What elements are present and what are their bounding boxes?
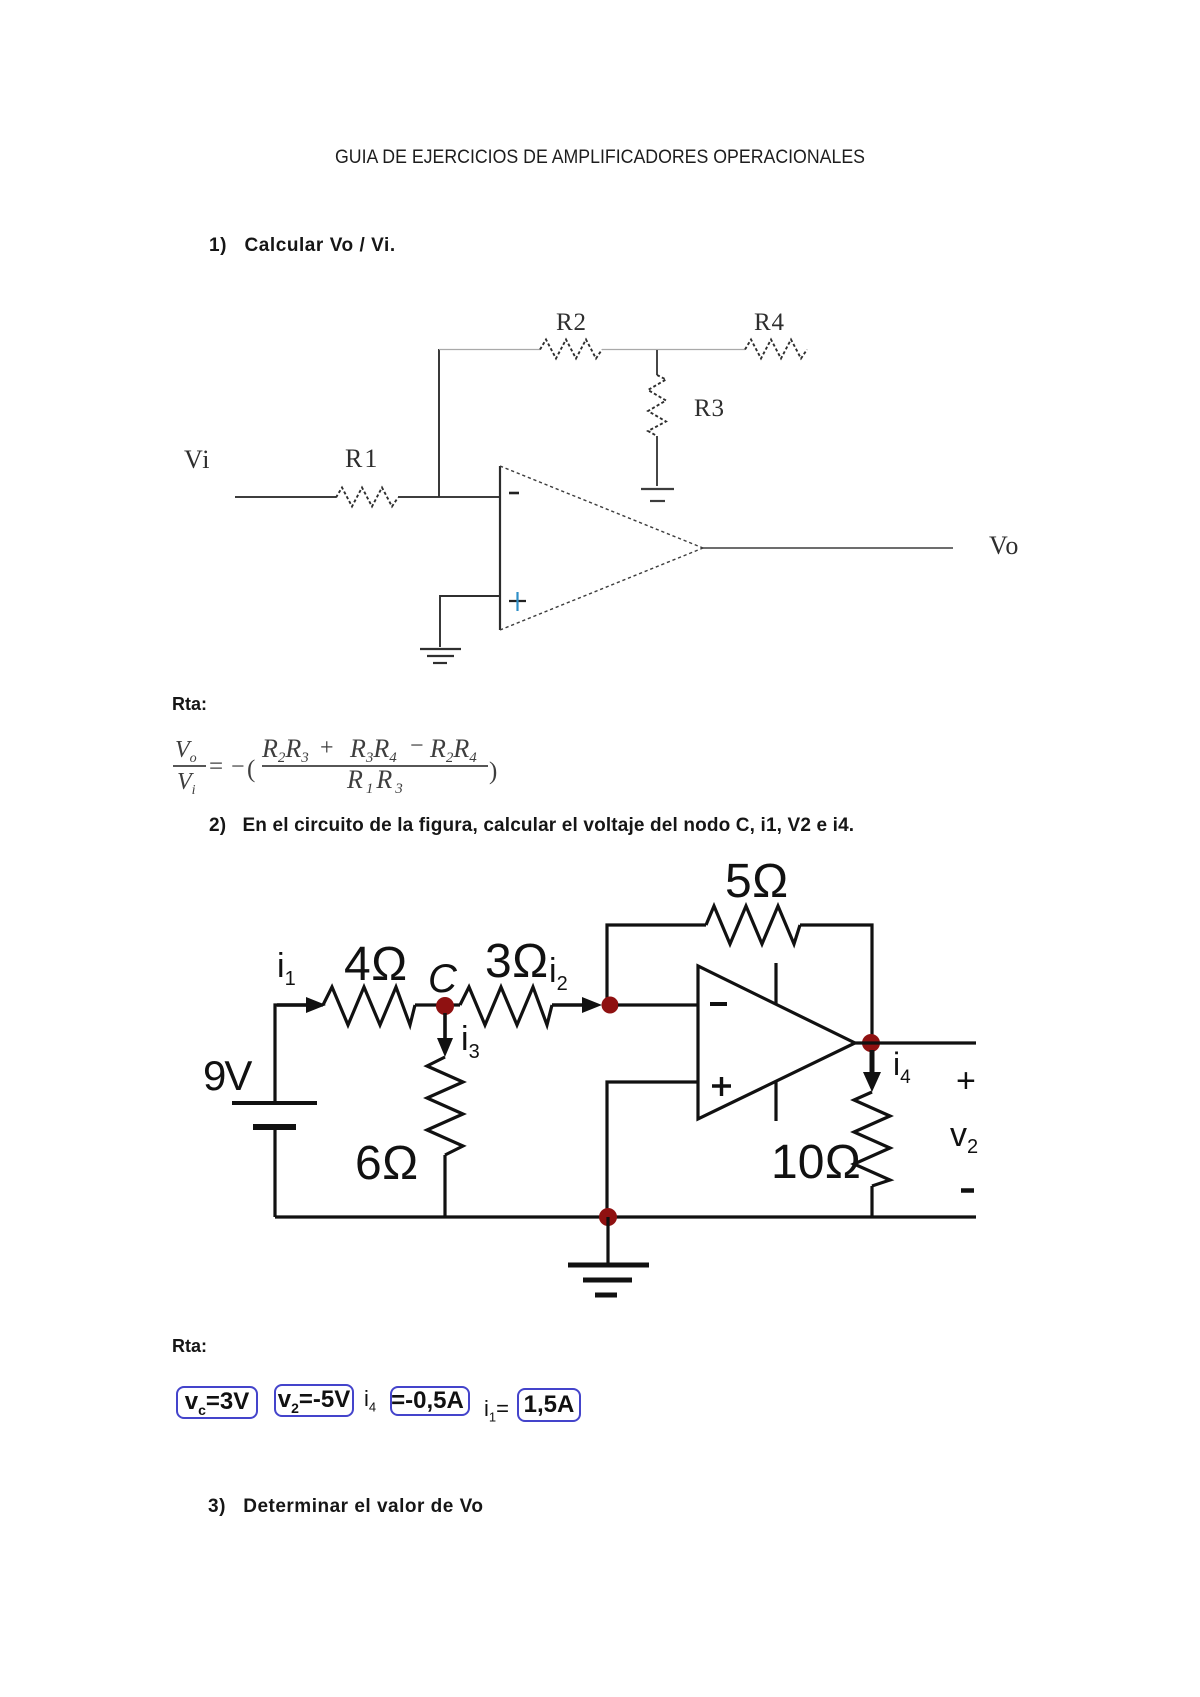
wire R3 to ground: [656, 436, 658, 486]
resistor 6ohm: [355, 1057, 463, 1190]
ground wire: [606, 1217, 609, 1263]
heading exercise 3: [208, 1496, 483, 1518]
svg-text:10Ω: 10Ω: [771, 1136, 861, 1189]
wire non-inverting input: [440, 596, 500, 647]
svg-text:9V: 9V: [203, 1052, 252, 1099]
formula Vo/Vi answer 1: [0, 0, 1200, 860]
node junction inverting input dot: [602, 997, 619, 1014]
arrow i1: [277, 997, 326, 1013]
node R3 junction wire: [656, 350, 658, 375]
arrow i3: [437, 1013, 453, 1057]
arrow i2: [552, 997, 602, 1013]
resistor 5ohm: [706, 855, 800, 944]
arrow i4: [863, 1050, 881, 1092]
resistor R1: [336, 444, 398, 507]
wire 4ohm to node C: [415, 1003, 460, 1006]
wire feedback vertical: [438, 349, 440, 497]
wire feedback top left: [607, 925, 706, 1005]
wire output: [855, 1041, 976, 1044]
resistor 3ohm: [460, 935, 552, 1025]
resistor R4: [745, 309, 807, 359]
wire Vi input: [235, 496, 336, 498]
wire 6ohm to bottom rail: [443, 1155, 446, 1217]
wire 10ohm to bottom rail: [870, 1186, 873, 1217]
title: [335, 147, 865, 169]
svg-text:5Ω: 5Ω: [725, 855, 789, 908]
wire node to inverting input: [618, 1003, 698, 1006]
fraction Vo over Vi: [173, 737, 206, 798]
ground at plus input: [420, 649, 461, 663]
svg-text:i4: i4: [893, 1046, 911, 1088]
wire output: [703, 547, 953, 549]
answer box i1=1,5A: [517, 1388, 581, 1422]
answer box vc=3V: [176, 1386, 258, 1419]
bottom rail wire: [275, 1215, 976, 1218]
wire top to R2: [439, 349, 540, 351]
answer label Rta exercise 1: [172, 694, 207, 715]
fraction bar: [262, 765, 488, 767]
wire non-inverting input: [607, 1082, 698, 1217]
resistor 10ohm: [771, 1092, 890, 1189]
battery 9V: [203, 1052, 317, 1127]
output node dot: [862, 1034, 880, 1052]
op-amp plus pin mark: [509, 592, 526, 611]
op-amp plus pin mark: [712, 1077, 731, 1096]
op-amp U2: [698, 963, 855, 1121]
wire battery top: [275, 1005, 323, 1102]
answer box v2=-5V: [274, 1384, 354, 1417]
wire R2 to R4: [602, 349, 745, 351]
resistor 4ohm: [323, 938, 415, 1025]
ground under R3: [641, 489, 674, 501]
svg-text:i2: i2: [549, 952, 568, 995]
svg-text:i1: i1: [277, 947, 296, 990]
wire battery bottom: [273, 1130, 276, 1217]
ground node dot: [599, 1208, 617, 1226]
label i4 equals: [364, 1386, 376, 1414]
heading exercise 2: [209, 815, 854, 837]
node C junction dot: [436, 997, 454, 1015]
answer box i4=-0,5A: [390, 1386, 470, 1416]
label minus V2: [961, 1188, 974, 1193]
svg-text:6Ω: 6Ω: [355, 1137, 419, 1190]
svg-text:v2: v2: [950, 1116, 978, 1158]
op-amp minus pin mark: [710, 1002, 727, 1006]
numerator R2R3 + R3R4 - R2R4: [261, 733, 477, 766]
resistor R3: [648, 375, 725, 436]
wire R1 to inverting input: [398, 496, 500, 498]
svg-text:C: C: [428, 957, 458, 1001]
wire feedback top right: [800, 925, 872, 1038]
op-amp minus pin mark: [509, 492, 519, 495]
ground symbol: [568, 1265, 649, 1295]
svg-text:i3: i3: [461, 1020, 480, 1063]
op-amp U1: [500, 466, 703, 630]
label i1 equals: [484, 1396, 509, 1424]
resistor R2: [540, 309, 602, 359]
svg-text:+: +: [956, 1062, 976, 1100]
heading exercise 1: [209, 235, 396, 257]
answer label Rta exercise 2: [172, 1336, 207, 1357]
svg-text:3Ω: 3Ω: [485, 935, 549, 988]
svg-text:4Ω: 4Ω: [344, 938, 408, 991]
